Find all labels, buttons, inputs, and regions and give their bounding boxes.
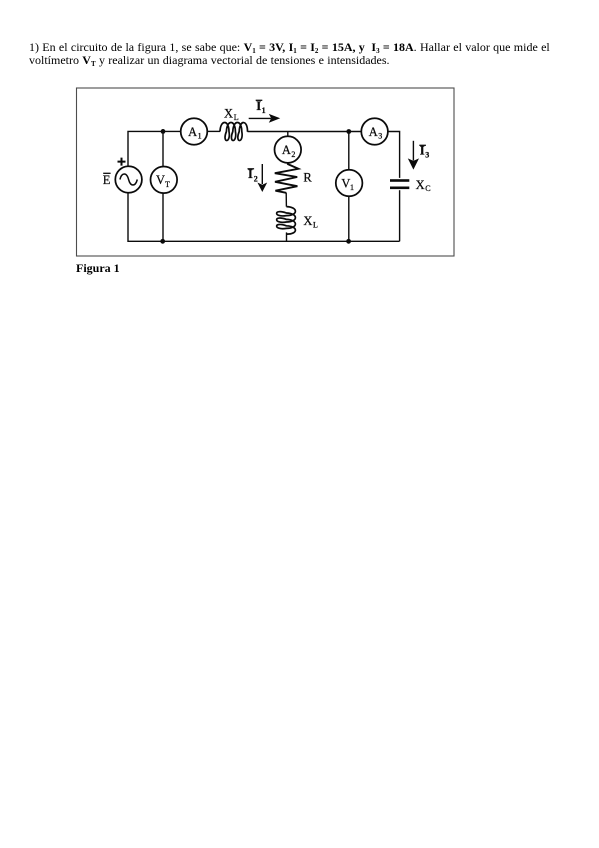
svg-text:3: 3 [378,132,382,141]
svg-text:E: E [103,173,111,187]
arrow I1 [249,117,271,119]
svg-text:R: R [303,171,312,185]
svg-text:1: 1 [350,183,354,192]
wire V1 branch bottom [348,196,350,241]
wire top left: source top to A1 [128,131,181,167]
svg-text:I: I [256,99,261,113]
ammeter A2 [275,136,302,163]
wire V1 branch top [348,132,350,171]
wire bottom [128,192,400,241]
wire top: A1 to coil [207,130,220,132]
wire A2 to resistor [287,163,289,165]
node bottom VT junction [160,239,165,244]
svg-text:1: 1 [262,106,266,115]
svg-text:X: X [416,178,425,192]
svg-text:A: A [369,125,378,139]
wire resistor to coil2 [285,193,287,207]
ammeter A1 [181,118,208,145]
wire coil2 to bottom [286,232,288,241]
svg-text:2: 2 [254,174,258,183]
svg-text:1: 1 [198,132,202,141]
svg-text:L: L [234,113,239,122]
plus sign of source [118,158,126,166]
svg-text:3: 3 [425,151,429,160]
wire VT branch top [162,131,164,166]
svg-text:C: C [425,184,430,193]
svg-text:I: I [248,167,253,181]
svg-text:V: V [156,173,165,187]
voltmeter V1 [336,170,363,197]
svg-text:A: A [282,143,291,157]
node top V1 junction [346,129,351,134]
svg-text:L: L [313,220,318,229]
arrow I3 [412,141,414,161]
wire right: cap to bottom [399,190,401,241]
svg-text:X: X [224,107,233,121]
figure frame [77,88,455,256]
svg-text:2: 2 [291,150,295,159]
arrow I2 [261,164,263,184]
caption Figura 1 [76,261,120,276]
node top VT junction [161,129,166,134]
label I3 [419,144,426,146]
node bottom V1 junction [346,239,351,244]
svg-text:X: X [303,214,312,228]
ammeter A3 [361,118,388,145]
inductor XL top coil [220,123,248,141]
ac source E [115,166,142,193]
voltmeter VT [151,167,178,194]
wire top right: A3 to cap branch [388,132,400,178]
resistor R [275,164,299,193]
wire top: coil to A3 [248,131,362,133]
label I2 [248,168,255,170]
capacitor XC [390,179,409,182]
wire A2 tick [287,132,289,137]
svg-text:A: A [188,125,197,139]
wire VT branch bottom [162,192,164,241]
svg-text:T: T [165,180,170,189]
inductor XL middle coil [277,207,296,235]
label I1 [256,99,263,101]
svg-text:I: I [420,144,425,158]
problem statement paragraph [29,41,589,67]
